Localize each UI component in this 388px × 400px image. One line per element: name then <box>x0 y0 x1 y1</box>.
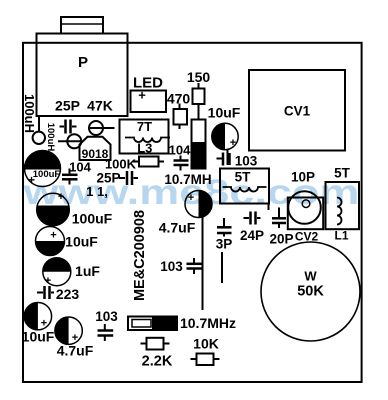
ceramic filter 10.7MH <box>192 120 206 169</box>
svg-text:5T: 5T <box>334 166 351 181</box>
potentiometer W 50K <box>261 242 360 341</box>
label 10uF (center) <box>208 105 241 121</box>
label 25P <box>55 98 80 114</box>
svg-text:104: 104 <box>169 143 191 158</box>
label 223 <box>56 286 80 302</box>
label 2.2K <box>142 354 173 370</box>
coil 7T L3 box <box>120 119 171 156</box>
electrolytic capacitor 10uF (center) <box>212 123 238 149</box>
svg-text:L3: L3 <box>137 141 152 156</box>
capacitor 24P (symbol) <box>244 212 261 225</box>
resistor 100K <box>133 157 164 167</box>
svg-text:10K: 10K <box>193 336 219 352</box>
label CV2 <box>295 230 319 244</box>
capacitor 20P (symbol) <box>272 208 286 229</box>
svg-text:1uF: 1uF <box>75 263 100 279</box>
capacitor 103 (middle, symbol) <box>187 258 202 274</box>
svg-text:103: 103 <box>235 154 258 169</box>
capacitor 103 (center, symbol) <box>217 150 230 166</box>
capacitor 223 (symbol) <box>37 286 54 299</box>
label 3P <box>216 237 233 252</box>
electrolytic capacitor 10uF (second) <box>36 227 65 256</box>
label 100uH (border) <box>22 94 37 133</box>
label 10uF (bottom-left) <box>22 329 55 345</box>
svg-text:223: 223 <box>56 286 80 302</box>
svg-text:+: + <box>45 275 51 287</box>
svg-text:100uF: 100uF <box>33 169 61 180</box>
svg-text:P: P <box>78 54 88 71</box>
label 100uH (small) <box>45 123 56 152</box>
svg-text:104: 104 <box>69 160 91 175</box>
label ME&C200908 <box>132 210 148 301</box>
label 24P <box>240 228 264 243</box>
connector P tab <box>61 17 103 34</box>
capacitor 25P (symbol) <box>60 120 77 134</box>
capacitor 3P (symbol) <box>217 218 232 237</box>
svg-text:24P: 24P <box>240 228 264 243</box>
capacitor 103 (bottom-left, symbol) <box>98 324 114 341</box>
coil 5T box <box>220 169 269 211</box>
svg-text:100uF: 100uF <box>72 211 113 227</box>
svg-text:100K: 100K <box>105 157 137 172</box>
svg-text:+: + <box>188 192 194 204</box>
svg-text:1 1,: 1 1, <box>86 184 108 199</box>
electrolytic capacitor 1uF <box>43 258 71 287</box>
label 103 (center) <box>235 154 258 169</box>
svg-text:CV1: CV1 <box>284 104 311 119</box>
svg-text:+: + <box>58 191 64 203</box>
svg-text:2.2K: 2.2K <box>142 354 173 370</box>
svg-text:47K: 47K <box>87 98 113 114</box>
inductor L 100uH <box>33 117 45 144</box>
svg-text:50K: 50K <box>297 284 324 300</box>
resistor 2.2K <box>141 338 170 350</box>
label 5T (second) <box>334 166 351 181</box>
label 100K <box>105 157 137 172</box>
svg-text:+: + <box>28 173 35 187</box>
svg-text:7T: 7T <box>137 119 152 134</box>
svg-text:L1: L1 <box>334 229 348 243</box>
resistor 470 <box>174 104 188 130</box>
svg-text:5T: 5T <box>235 170 252 185</box>
svg-text:4.7uF: 4.7uF <box>57 343 94 359</box>
label 10K <box>193 336 219 352</box>
wire (long vertical) <box>202 218 204 311</box>
label L1 <box>334 229 348 243</box>
svg-text:3P: 3P <box>216 237 233 252</box>
label 103 (bottom-left) <box>95 309 118 324</box>
electrolytic capacitor 100uF (second) <box>37 191 70 226</box>
coil L1 box <box>326 182 360 229</box>
label 20P <box>269 232 293 247</box>
label LED <box>133 75 163 92</box>
svg-text:25P: 25P <box>55 98 80 114</box>
capacitor 104 (second, symbol) <box>174 156 189 171</box>
label 25P (second) <box>96 171 120 186</box>
connector P body <box>37 34 128 117</box>
svg-text:10.7MH: 10.7MH <box>164 172 211 187</box>
svg-text:ME&C200908: ME&C200908 <box>132 210 148 301</box>
label 47K <box>87 98 113 114</box>
electrolytic capacitor 4.7uF (bottom-left) <box>55 317 82 344</box>
label 4.7uF (bottom-left) <box>57 343 94 359</box>
svg-text:100uH: 100uH <box>45 123 56 152</box>
label 104 (second) <box>169 143 191 158</box>
svg-text:10uF: 10uF <box>65 234 98 250</box>
resistor 150 <box>193 83 205 120</box>
svg-text:+: + <box>230 137 236 149</box>
svg-text:20P: 20P <box>269 232 293 247</box>
label 1uF <box>75 263 100 279</box>
svg-text:150: 150 <box>187 69 211 85</box>
capacitor 25P (second, symbol) <box>119 171 138 185</box>
resistor 10K <box>191 354 220 366</box>
trimmer capacitor CV2 <box>288 191 323 229</box>
label 100uF (second) <box>72 211 113 227</box>
label 4.7uF (center) <box>159 220 196 236</box>
svg-text:10P: 10P <box>291 170 315 185</box>
label 10.7MH <box>164 172 211 187</box>
label 10P <box>291 170 315 185</box>
svg-text:+: + <box>138 88 146 103</box>
svg-text:4.7uF: 4.7uF <box>159 220 196 236</box>
svg-text:10uF: 10uF <box>208 105 241 121</box>
label 150 <box>187 69 211 85</box>
capacitor 104 (symbol, left) <box>62 169 78 185</box>
electrolytic capacitor 10uF (bottom-left) <box>24 303 51 330</box>
svg-text:W: W <box>304 269 317 284</box>
svg-text:100uH: 100uH <box>22 94 37 133</box>
board outline border <box>23 43 362 382</box>
label 470 <box>167 91 191 107</box>
wire (below 3P) <box>221 252 223 283</box>
trimmer (left) <box>58 134 81 148</box>
trimmer pot 47K <box>89 121 115 135</box>
LED body <box>131 88 167 113</box>
wire stubs (vias) <box>86 184 108 199</box>
varactor CV1 box <box>249 70 345 151</box>
svg-text:10.7MHz: 10.7MHz <box>180 315 236 331</box>
svg-text:103: 103 <box>160 259 183 274</box>
label 10uF (second) <box>65 234 98 250</box>
label P <box>78 54 88 71</box>
transistor 9018 <box>80 137 111 161</box>
electrolytic capacitor 4.7uF (center) <box>185 190 212 217</box>
crystal filter 10.7MHz <box>128 317 177 331</box>
svg-text:+: + <box>50 230 56 242</box>
label 10.7MHz <box>180 315 236 331</box>
watermark www.me8c.com <box>22 172 359 212</box>
label 104 <box>69 160 91 175</box>
label 103 (middle) <box>160 259 183 274</box>
svg-text:10uF: 10uF <box>22 329 55 345</box>
electrolytic capacitor 100uF (top-left) <box>25 150 61 187</box>
svg-text:103: 103 <box>95 309 118 324</box>
